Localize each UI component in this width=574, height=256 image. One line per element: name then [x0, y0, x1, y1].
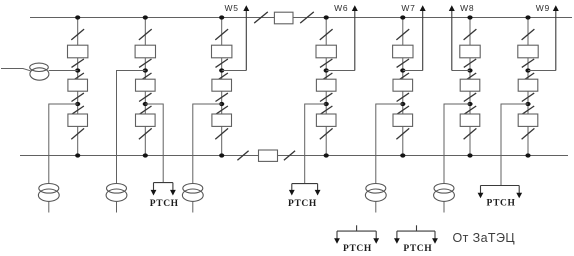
disconnector feeder 7 #1	[522, 29, 535, 40]
wire feeder 3 node A tap	[222, 70, 247, 72]
breaker feeder 2 lower	[136, 114, 156, 126]
disconnector feeder 2 #4	[139, 93, 151, 101]
feeder 4 wire	[325, 18, 327, 156]
disconnector feeder 4 #2	[320, 59, 332, 67]
svg-text:РТСН: РТСН	[150, 199, 179, 209]
breaker feeder 1 lower	[68, 114, 88, 126]
disconnector feeder 2 #1	[139, 29, 152, 40]
svg-text:W7: W7	[401, 3, 415, 13]
feeder 7 wire	[527, 18, 529, 156]
breaker feeder 7 middle	[518, 79, 538, 91]
wire feeder 5 node A tap	[403, 70, 423, 72]
svg-text:W6: W6	[334, 3, 348, 13]
node feeder 5 top bus	[400, 15, 405, 19]
disconnector feeder 6 #5	[464, 106, 476, 114]
breaker feeder 6 upper	[460, 45, 480, 58]
svg-text:РТСН: РТСН	[403, 244, 432, 254]
disconnector feeder 6 #4	[464, 93, 476, 101]
transformer T3 (load)	[182, 184, 203, 213]
svg-text:РТСН: РТСН	[343, 244, 372, 254]
node feeder 4 bottom bus	[324, 153, 329, 157]
node feeder 2 bottom bus	[143, 153, 148, 157]
breaker feeder 5 upper	[393, 45, 413, 58]
transformer T1 (load)	[38, 184, 59, 213]
arrow line W7	[420, 5, 426, 70]
disconnector feeder 1 #6	[71, 128, 84, 139]
breaker feeder 6 middle	[460, 79, 480, 91]
disconnector bottom-tie left	[237, 151, 248, 161]
arrow line W9	[553, 5, 559, 70]
node A feeder 7	[525, 68, 530, 72]
node B feeder 7	[525, 102, 530, 106]
disconnector feeder 2 #5	[139, 106, 151, 114]
feeder 3 wire	[221, 18, 223, 156]
transformer T main (top-left)	[30, 63, 49, 80]
node feeder 2 top bus	[143, 15, 148, 19]
disconnector top-tie left	[254, 12, 268, 23]
arrows RTSN feed 2	[289, 184, 321, 196]
transformer T5 (load)	[434, 184, 455, 213]
svg-text:W8: W8	[460, 3, 474, 13]
breaker feeder 4 lower	[316, 114, 336, 126]
node feeder 6 bottom bus	[467, 153, 472, 157]
disconnector feeder 6 #1	[464, 29, 477, 40]
disconnector feeder 7 #2	[522, 59, 534, 67]
disconnector feeder 7 #4	[522, 93, 534, 101]
breaker top bus tie	[274, 12, 293, 24]
disconnector feeder 3 #3	[216, 73, 228, 81]
svg-text:W9: W9	[536, 3, 550, 13]
disconnector feeder 3 #2	[216, 59, 228, 67]
disconnector feeder 5 #6	[396, 128, 409, 139]
busbar section line top	[30, 17, 572, 19]
disconnector top-tie right	[300, 12, 314, 23]
node A feeder 1	[75, 68, 80, 72]
wire feeder 7 node B tap	[501, 104, 528, 186]
disconnector feeder 3 #6	[215, 128, 228, 139]
svg-text:W5: W5	[225, 3, 239, 13]
node B feeder 6	[467, 102, 472, 106]
arrow line W8	[449, 5, 455, 70]
disconnector feeder 5 #4	[397, 93, 409, 101]
feeder 1 wire	[77, 18, 79, 156]
wire feeder 4 node A tap	[326, 70, 355, 72]
feeder 5 wire	[402, 18, 404, 156]
wire feeder 2 node A tap	[117, 71, 146, 185]
disconnector feeder 2 #2	[139, 59, 151, 67]
node feeder 3 bottom bus	[219, 153, 224, 157]
node A feeder 6	[467, 68, 472, 72]
disconnector feeder 4 #1	[320, 29, 333, 40]
disconnector feeder 6 #3	[464, 73, 476, 81]
disconnector feeder 7 #5	[522, 106, 534, 114]
wire feeder 4 node B tap	[305, 104, 327, 184]
breaker feeder 4 upper	[316, 45, 336, 58]
breaker feeder 3 lower	[212, 114, 232, 126]
breaker feeder 7 upper	[518, 45, 538, 58]
node A feeder 2	[143, 68, 148, 72]
arrows RTSN feed 5	[394, 225, 438, 244]
wire feeder 1 node B tap	[49, 104, 78, 184]
wire feeder 6 node B tap	[444, 104, 470, 184]
disconnector feeder 3 #5	[216, 106, 228, 114]
node B feeder 4	[324, 102, 329, 106]
feeder 2 wire	[144, 18, 146, 156]
breaker feeder 1 middle	[68, 79, 88, 91]
svg-text:РТСН: РТСН	[487, 199, 516, 209]
arrow line W6	[352, 5, 358, 70]
wire feeder 7 node A tap	[528, 70, 556, 72]
wire feeder 2 node B tap	[145, 104, 163, 183]
breaker feeder 7 lower	[518, 114, 538, 126]
breaker feeder 5 middle	[393, 79, 413, 91]
busbar section line bottom	[20, 155, 568, 157]
node feeder 1 top bus	[75, 15, 80, 19]
disconnector feeder 3 #4	[216, 93, 228, 101]
wire feeder 5 node B tap	[376, 104, 403, 184]
disconnector feeder 5 #3	[397, 73, 409, 81]
transformer T4 (load)	[365, 184, 386, 213]
svg-text:РТСН: РТСН	[288, 199, 317, 209]
node feeder 3 top bus	[219, 15, 224, 19]
wire feeder 6 node A tap	[452, 70, 470, 72]
node feeder 1 bottom bus	[75, 153, 80, 157]
arrows RTSN feed 3	[478, 186, 522, 199]
disconnector feeder 7 #3	[522, 73, 534, 81]
node feeder 6 top bus	[467, 15, 472, 19]
disconnector feeder 4 #6	[320, 128, 333, 139]
breaker feeder 6 lower	[460, 114, 480, 126]
breaker feeder 3 upper	[212, 45, 232, 58]
disconnector feeder 1 #5	[72, 106, 84, 114]
breaker feeder 3 middle	[212, 79, 232, 91]
node A feeder 5	[400, 68, 405, 72]
arrow line W5	[243, 5, 249, 70]
node feeder 5 bottom bus	[400, 153, 405, 157]
disconnector feeder 7 #6	[522, 128, 535, 139]
disconnector feeder 1 #3	[72, 73, 84, 81]
arrows RTSN feed 1	[151, 183, 176, 196]
wire T-main to feeder 1 node A	[49, 70, 78, 72]
node A feeder 3	[219, 68, 224, 72]
wire supply lead-in	[1, 69, 31, 71]
svg-text:От ЗаТЭЦ: От ЗаТЭЦ	[453, 231, 516, 245]
disconnector feeder 1 #1	[71, 29, 84, 40]
disconnector feeder 5 #2	[397, 59, 409, 67]
breaker feeder 1 upper	[68, 45, 88, 58]
breaker feeder 5 lower	[393, 114, 413, 126]
node feeder 7 top bus	[525, 15, 530, 19]
breaker feeder 4 middle	[316, 79, 336, 91]
disconnector feeder 1 #4	[72, 93, 84, 101]
disconnector feeder 1 #2	[72, 59, 84, 67]
disconnector feeder 2 #6	[139, 128, 152, 139]
breaker feeder 2 upper	[135, 45, 155, 58]
feeder 6 wire	[469, 18, 471, 156]
node feeder 4 top bus	[324, 15, 329, 19]
disconnector bottom-tie right	[284, 151, 295, 161]
disconnector feeder 3 #1	[215, 29, 228, 40]
disconnector feeder 5 #1	[396, 29, 409, 40]
disconnector feeder 5 #5	[397, 106, 409, 114]
transformer T2 (load)	[106, 184, 127, 213]
disconnector feeder 2 #3	[139, 73, 151, 81]
node feeder 7 bottom bus	[525, 153, 530, 157]
node B feeder 5	[400, 102, 405, 106]
node B feeder 2	[143, 102, 148, 106]
disconnector feeder 4 #5	[320, 106, 332, 114]
node B feeder 1	[75, 102, 80, 106]
node A feeder 4	[324, 68, 329, 72]
node B feeder 3	[219, 102, 224, 106]
breaker feeder 2 middle	[136, 79, 156, 91]
disconnector feeder 4 #4	[320, 93, 332, 101]
disconnector feeder 4 #3	[320, 73, 332, 81]
disconnector feeder 6 #6	[464, 128, 477, 139]
disconnector feeder 6 #2	[464, 59, 476, 67]
wire feeder 3 node B tap	[193, 104, 222, 184]
breaker bottom bus tie	[259, 150, 278, 161]
arrows RTSN feed 4	[334, 225, 379, 244]
